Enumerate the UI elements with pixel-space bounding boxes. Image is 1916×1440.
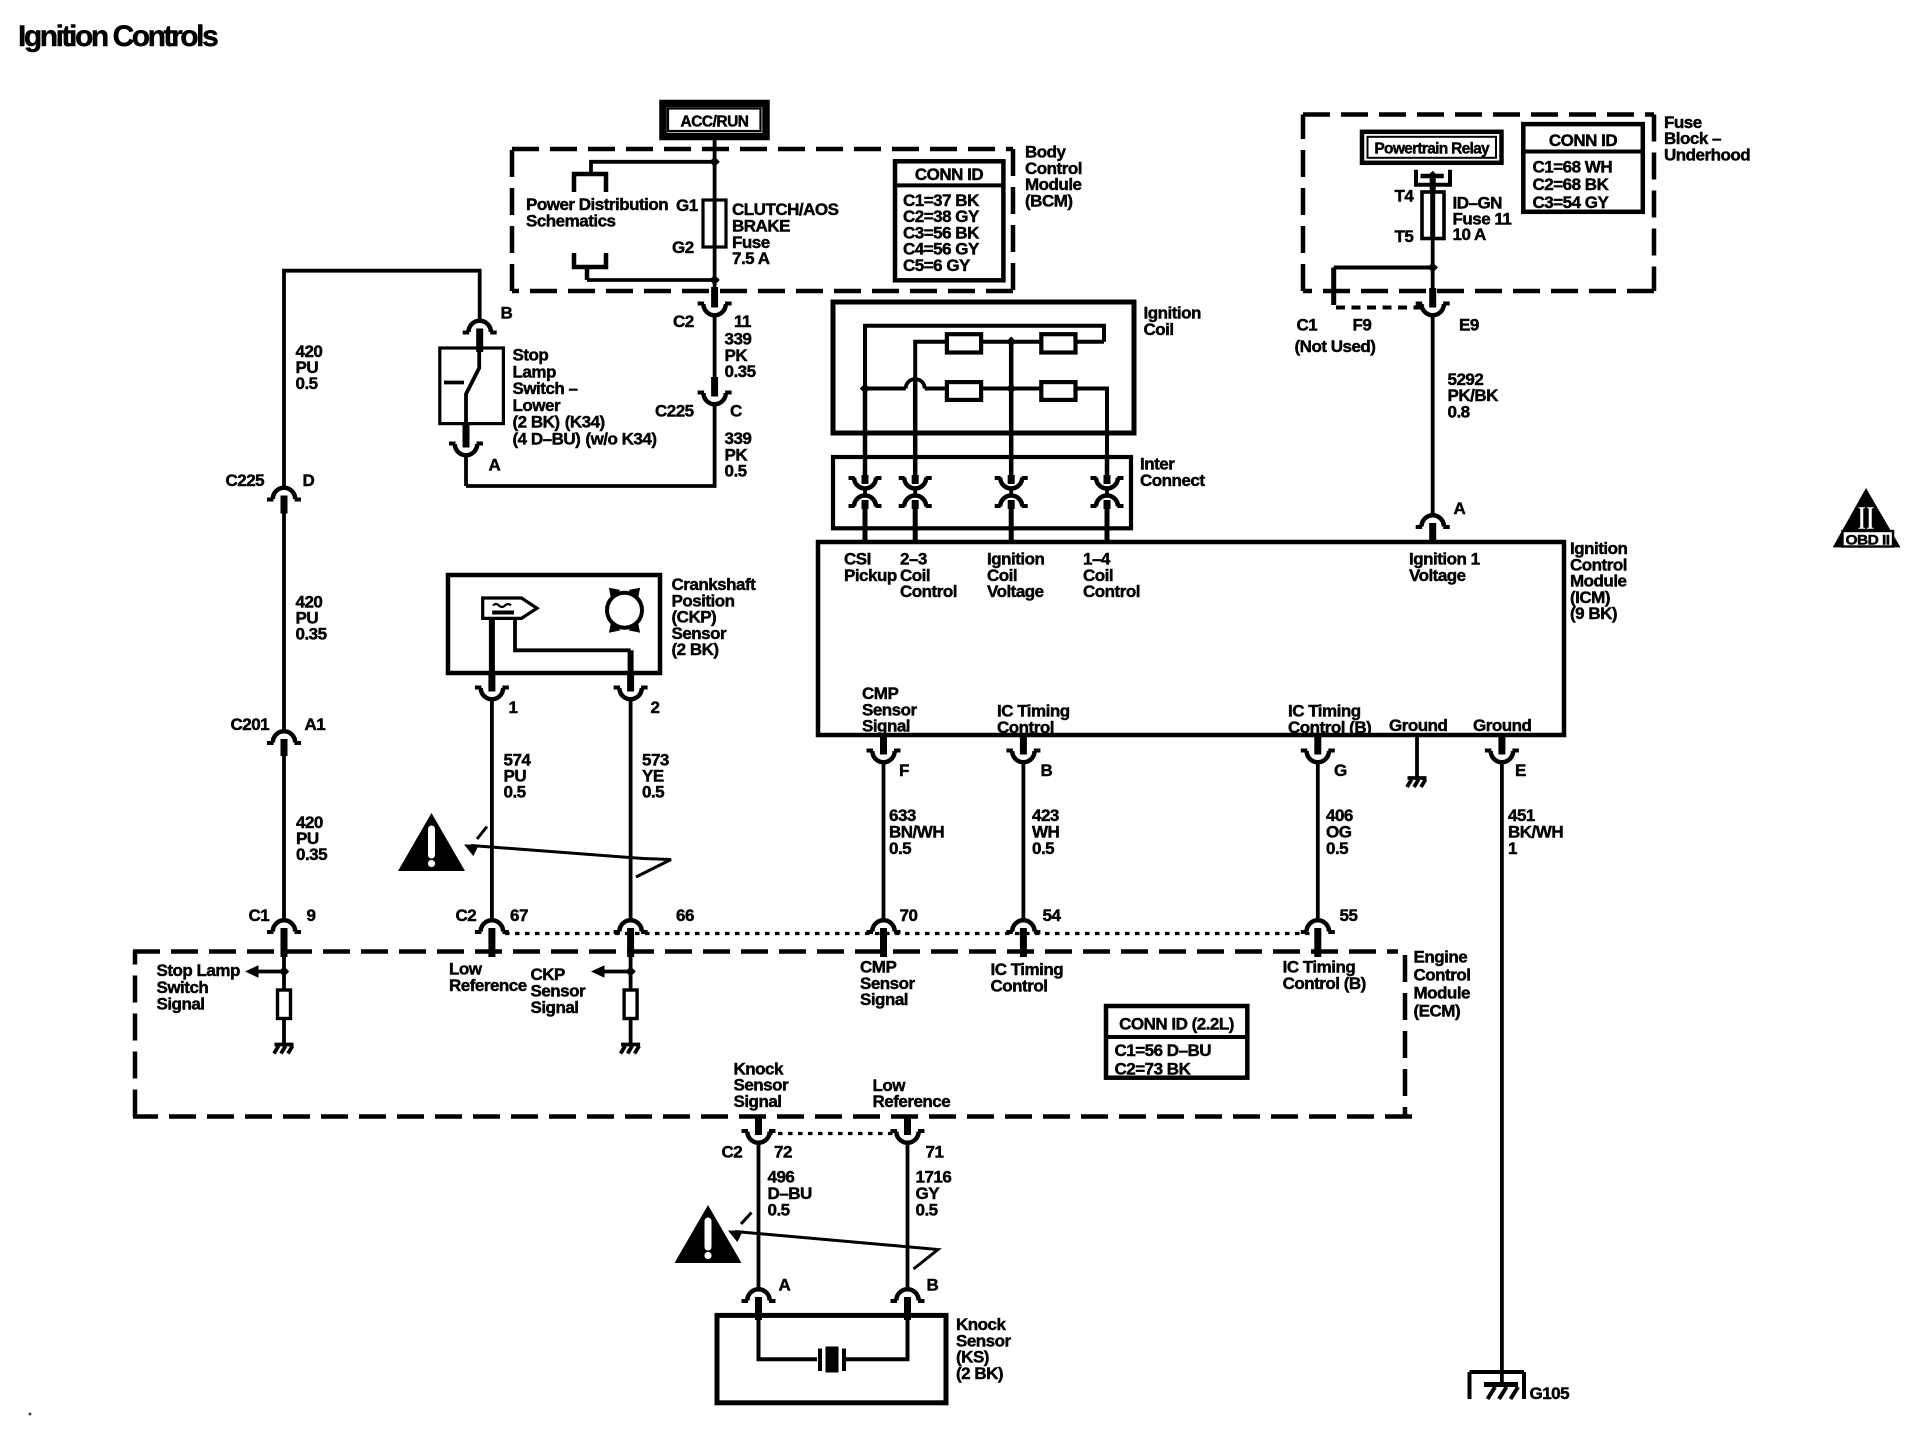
svg-text:C225: C225	[226, 471, 265, 490]
connector A (KS)	[742, 1289, 776, 1301]
connector C2 pin 54 (ECM)	[1006, 920, 1040, 932]
connector C2 pin 66 (ECM)	[614, 920, 648, 932]
connector C1 pin 9 stub	[281, 928, 288, 957]
connector C2 pin 70 (ECM)	[867, 920, 901, 932]
svg-text:C1: C1	[1297, 316, 1318, 335]
connector C201 pin A1	[267, 731, 301, 743]
svg-text:CONN ID (2.2L): CONN ID (2.2L)	[1119, 1015, 1234, 1034]
net F9 not used (dashed)	[1336, 306, 1421, 310]
connector G stub	[1314, 735, 1321, 755]
svg-text:IC TimingControl: IC TimingControl	[997, 702, 1070, 737]
wire v3 ignition coil voltage	[1009, 342, 1014, 476]
wire fuse to E9	[1431, 239, 1435, 289]
svg-text:IgnitionCoilVoltage: IgnitionCoilVoltage	[987, 550, 1044, 602]
svg-text:55: 55	[1340, 906, 1358, 925]
ground (ICM case)	[1407, 778, 1427, 787]
wire relay to fuse	[1430, 176, 1436, 192]
warning note triangle 2	[675, 1205, 742, 1263]
svg-text:CLUTCH/AOSBRAKEFuse7.5 A: CLUTCH/AOSBRAKEFuse7.5 A	[732, 200, 839, 268]
relay box Powertrain Relay	[1362, 132, 1502, 163]
connector C2 pin 11	[698, 304, 732, 316]
wire 406 OG 0.5	[1316, 762, 1320, 920]
junction box Inter Connect	[833, 457, 1131, 528]
connector C2 pin 67 (ECM)	[475, 920, 509, 932]
wire stop lamp branch	[282, 957, 286, 990]
power distribution bracket bottom	[574, 253, 606, 267]
junction F9 tap	[1428, 262, 1438, 272]
svg-text:Ignition 1Voltage: Ignition 1Voltage	[1409, 550, 1480, 585]
sensor box CKP	[448, 575, 660, 673]
wire pair2 to ICM	[913, 505, 918, 542]
arrow CKP signal	[600, 970, 631, 974]
wire junction to bracket	[591, 162, 715, 174]
svg-text:BodyControlModule(BCM): BodyControlModule(BCM)	[1025, 143, 1082, 211]
svg-text:423WH0.5: 423WH0.5	[1032, 806, 1060, 858]
wire hop over v2	[906, 379, 925, 389]
wire 420 PU 0.35 (mid)	[282, 514, 286, 732]
svg-text:66: 66	[676, 906, 694, 925]
OBD II marker	[1833, 488, 1901, 548]
relay terminal T-bar	[1421, 174, 1444, 179]
coil winding R4	[1041, 382, 1075, 400]
connector B stub (ICM)	[1020, 735, 1027, 755]
connector E9 stub	[1429, 288, 1436, 308]
KS internal wires	[759, 1320, 818, 1359]
coil inner loop top	[865, 326, 1104, 389]
svg-text:CONN ID: CONN ID	[1549, 131, 1618, 150]
svg-text:D: D	[303, 471, 315, 490]
ground G105	[1470, 1372, 1525, 1399]
wire resistor to ground	[282, 1019, 286, 1044]
svg-text:C2: C2	[722, 1143, 743, 1162]
connector C1 pin 9 (ECM)	[267, 920, 301, 932]
svg-text:CKPSensorSignal: CKPSensorSignal	[531, 965, 587, 1017]
arrow stop lamp signal	[254, 970, 284, 974]
ground (CKP)	[621, 1045, 641, 1054]
connector C225 pin D stub	[281, 496, 288, 514]
svg-text:C2: C2	[673, 312, 694, 331]
resistor (CKP pull)	[624, 990, 637, 1019]
connector pin 2	[614, 688, 648, 700]
svg-text:420PU0.5: 420PU0.5	[296, 342, 323, 393]
connector C2 link line knock (dotted)	[768, 1132, 898, 1135]
svg-text:Power DistributionSchematics: Power DistributionSchematics	[526, 195, 668, 230]
svg-text:FuseBlock –Underhood: FuseBlock –Underhood	[1664, 113, 1750, 165]
svg-text:LowReference: LowReference	[873, 1076, 951, 1111]
svg-text:ACC/RUN: ACC/RUN	[681, 114, 749, 131]
wire v4 1-4 coil control	[1105, 457, 1110, 476]
svg-text:T4: T4	[1395, 187, 1415, 206]
connector E9	[1416, 304, 1450, 316]
svg-text:OBD II: OBD II	[1846, 533, 1890, 548]
svg-text:420PU0.35: 420PU0.35	[296, 813, 327, 864]
wire F9 tap	[1334, 266, 1433, 270]
svg-text:(Not Used): (Not Used)	[1295, 337, 1376, 356]
svg-text:633BN/WH0.5: 633BN/WH0.5	[889, 806, 944, 858]
switch Stop Lamp Switch Lower	[440, 348, 504, 424]
svg-text:71: 71	[926, 1143, 944, 1162]
svg-text:IC TimingControl (B): IC TimingControl (B)	[1288, 702, 1371, 737]
connector pin 2 stub	[627, 673, 634, 692]
connector C2 pin 71 stub	[904, 1116, 911, 1135]
ICM case ground wire	[1415, 735, 1419, 777]
wire 574 PU 0.5	[490, 699, 494, 920]
junction node lower	[709, 275, 719, 285]
connector B (KS)	[891, 1289, 925, 1301]
svg-text:C1: C1	[249, 906, 270, 925]
svg-text:339PK0.5: 339PK0.5	[725, 429, 752, 481]
connector pin 1	[475, 688, 509, 700]
connector B (ICM)	[1006, 751, 1040, 763]
ground (stop lamp)	[274, 1045, 294, 1054]
svg-text:CONN ID: CONN ID	[915, 165, 984, 184]
CKP reluctor wheel symbol	[607, 588, 642, 633]
wire 496 D-BU 0.5	[757, 1143, 761, 1289]
svg-text:E: E	[1515, 761, 1526, 780]
note leader arrow	[461, 827, 671, 878]
wire 339 PK 0.5	[466, 404, 715, 486]
coil winding R1	[947, 334, 981, 352]
svg-text:574PU0.5: 574PU0.5	[504, 751, 532, 802]
connector A (switch bottom)	[449, 444, 483, 456]
junction node	[709, 157, 719, 167]
svg-text:KnockSensorSignal: KnockSensorSignal	[734, 1059, 790, 1110]
relay terminal bracket	[1416, 170, 1450, 185]
svg-text:2: 2	[651, 698, 660, 717]
svg-text:C2: C2	[456, 906, 477, 925]
wire pair1 to ICM	[863, 505, 868, 542]
svg-text:CSIPickup: CSIPickup	[844, 550, 897, 585]
connector id table ECM	[1106, 1006, 1247, 1079]
svg-text:CMPSensorSignal: CMPSensorSignal	[862, 684, 918, 736]
svg-text:573YE0.5: 573YE0.5	[642, 751, 669, 802]
wire junction to fuse	[713, 162, 717, 200]
connector C201 pin A1 stub	[281, 739, 288, 756]
wire v1 CSI pickup	[863, 389, 868, 477]
svg-text:IC TimingControl: IC TimingControl	[991, 960, 1064, 995]
svg-text:Ground: Ground	[1389, 716, 1447, 735]
connector C2 pin 55 (ECM)	[1301, 920, 1335, 932]
svg-text:G1: G1	[676, 196, 698, 215]
svg-text:A: A	[489, 456, 501, 475]
stray mark	[29, 1413, 32, 1416]
wire 573 YE 0.5	[629, 699, 633, 920]
connector A (ICM)	[1416, 515, 1450, 527]
connector C2 pin 11 stub	[711, 287, 718, 308]
svg-text:G105: G105	[1530, 1384, 1570, 1403]
connector B (switch top)	[463, 321, 497, 333]
wire ACC/RUN to junction	[713, 140, 717, 162]
junction secondary mid	[1006, 383, 1016, 393]
wire fuse to lower junction	[713, 247, 717, 288]
connector C2 pin 72 stub	[755, 1116, 762, 1135]
interconnect pair 1	[849, 475, 882, 509]
fuse block box (dashed)	[1303, 115, 1654, 292]
connector id table BCM	[895, 161, 1003, 280]
svg-text:A1: A1	[305, 715, 326, 734]
svg-text:1–4CoilControl: 1–4CoilControl	[1083, 550, 1140, 602]
wire 420 PU top run	[284, 271, 480, 487]
svg-text:B: B	[501, 304, 513, 323]
connector F stub	[880, 735, 887, 755]
svg-text:IgnitionCoil: IgnitionCoil	[1144, 304, 1201, 339]
wire 451 BK/WH 1	[1500, 762, 1504, 1382]
wire CKP branch	[629, 957, 633, 990]
connector A stub (ICM)	[1429, 523, 1436, 542]
power source box ACC/RUN	[663, 104, 766, 137]
svg-text:Ground: Ground	[1473, 716, 1531, 735]
resistor (stop lamp pull)	[278, 990, 291, 1019]
svg-text:496D–BU0.5: 496D–BU0.5	[768, 1168, 813, 1220]
svg-text:Powertrain Relay: Powertrain Relay	[1374, 141, 1490, 158]
svg-text:A: A	[779, 1276, 791, 1295]
svg-text:C1=37 BKC2=38 GYC3=56 BKC4=56: C1=37 BKC2=38 GYC3=56 BKC4=56 GYC5=6 GY	[903, 191, 980, 275]
wire CKP internal pin1	[489, 618, 495, 673]
svg-text:451BK/WH1: 451BK/WH1	[1508, 806, 1563, 858]
junction stop lamp	[279, 966, 289, 976]
svg-text:72: 72	[774, 1143, 792, 1162]
wire 5292 PK/BK 0.8	[1431, 315, 1435, 514]
svg-text:C1=56 D–BUC2=73 BK: C1=56 D–BUC2=73 BK	[1115, 1041, 1212, 1079]
svg-text:C225: C225	[655, 402, 694, 421]
svg-text:1: 1	[509, 698, 518, 717]
svg-text:StopLampSwitch –Lower(2 BK) (: StopLampSwitch –Lower(2 BK) (K34)(4 D–BU…	[513, 346, 657, 449]
interconnect pair 3	[995, 475, 1028, 509]
svg-text:339PK0.35: 339PK0.35	[725, 330, 756, 382]
connector F	[867, 751, 901, 763]
wire resistor to ground 2	[629, 1019, 633, 1044]
svg-text:KnockSensor(KS)(2 BK): KnockSensor(KS)(2 BK)	[956, 1315, 1012, 1383]
svg-text:InterConnect: InterConnect	[1140, 455, 1205, 491]
svg-text:G: G	[1334, 761, 1347, 780]
svg-text:C1=68 WHC2=68 BKC3=54 GY: C1=68 WHC2=68 BKC3=54 GY	[1533, 158, 1613, 212]
wire 420 PU 0.35 (lower)	[282, 756, 286, 920]
connector C225 pin C	[698, 393, 732, 405]
warning note triangle	[398, 813, 465, 871]
svg-text:Stop LampSwitchSignal: Stop LampSwitchSignal	[157, 961, 240, 1014]
svg-text:2–3CoilControl: 2–3CoilControl	[900, 550, 957, 602]
connector B stub	[476, 329, 483, 353]
connector C225 pin D	[267, 488, 301, 500]
connector pin 1 stub	[488, 673, 495, 692]
wire 423 WH 0.5	[1022, 762, 1026, 920]
connector A stub (KS)	[755, 1297, 762, 1320]
svg-text:E9: E9	[1459, 316, 1479, 335]
svg-text:ID–GNFuse 1110 A: ID–GNFuse 1110 A	[1453, 194, 1512, 245]
svg-text:B: B	[1041, 761, 1053, 780]
fuse ID-GN Fuse 11 10A	[1422, 192, 1444, 239]
wire 339 PK 0.35	[713, 315, 717, 377]
svg-text:54: 54	[1043, 906, 1062, 925]
connector C2 pin 72	[742, 1131, 776, 1143]
svg-text:1716GY0.5: 1716GY0.5	[916, 1168, 952, 1220]
fuse CLUTCH/AOS BRAKE 7.5A	[703, 200, 726, 247]
connector C2 link line (dotted)	[505, 932, 1318, 935]
junction top row	[1006, 337, 1016, 347]
wire v2 2-3 coil control	[913, 380, 918, 476]
svg-text:11: 11	[734, 312, 751, 331]
svg-text:LowReference: LowReference	[449, 960, 527, 995]
connector C225 pin C stub	[711, 377, 718, 397]
wire 633 BN/WH 0.5	[882, 762, 886, 920]
connector id table fuse block	[1523, 124, 1643, 212]
svg-text:T5: T5	[1395, 227, 1414, 246]
connector G	[1301, 751, 1335, 763]
junction CKP	[625, 966, 635, 976]
sensor box Knock Sensor	[717, 1315, 946, 1402]
svg-text:70: 70	[900, 906, 918, 925]
svg-text:67: 67	[510, 906, 528, 925]
svg-text:5292PK/BK0.8: 5292PK/BK0.8	[1448, 370, 1500, 422]
svg-text:CMPSensorSignal: CMPSensorSignal	[860, 958, 916, 1010]
power distribution bracket top	[574, 174, 606, 192]
wire 1716 GY 0.5	[906, 1143, 910, 1289]
svg-text:9: 9	[307, 906, 316, 925]
svg-text:IgnitionControlModule(ICM)(9 B: IgnitionControlModule(ICM)(9 BK)	[1570, 539, 1627, 623]
CKP pickup symbol	[483, 598, 537, 618]
wire A to corner	[464, 455, 468, 486]
connector C2 pin 71	[891, 1131, 925, 1143]
svg-text:B: B	[927, 1276, 939, 1295]
svg-text:G2: G2	[672, 238, 694, 257]
svg-text:F9: F9	[1353, 316, 1372, 335]
note leader arrow 2	[725, 1213, 938, 1270]
coil winding R2	[1041, 334, 1075, 352]
svg-text:C: C	[730, 402, 742, 421]
connector E	[1485, 751, 1519, 763]
module box BCM (dashed)	[512, 149, 1013, 291]
wire pair4 to ICM	[1105, 505, 1110, 542]
coil secondary row wire with hop	[865, 387, 906, 391]
svg-text:A: A	[1454, 499, 1466, 518]
svg-text:Ignition Controls: Ignition Controls	[18, 20, 218, 53]
svg-text:CrankshaftPosition(CKP)Sensor(: CrankshaftPosition(CKP)Sensor(2 BK)	[672, 575, 757, 659]
svg-text:406OG0.5: 406OG0.5	[1326, 806, 1353, 858]
svg-text:F: F	[899, 761, 909, 780]
svg-text:EngineControlModule(ECM): EngineControlModule(ECM)	[1414, 948, 1471, 1021]
connector A stub	[463, 424, 470, 448]
KS piezo element	[820, 1347, 844, 1373]
component box Ignition Coil	[833, 302, 1134, 433]
connector E stub	[1498, 735, 1505, 755]
module box ECM (dashed)	[133, 951, 1412, 1117]
wire bracket bottom to junction	[585, 266, 590, 280]
connector B stub (KS)	[904, 1297, 911, 1320]
module box ICM	[818, 542, 1564, 735]
svg-text:IC TimingControl (B): IC TimingControl (B)	[1283, 958, 1366, 993]
interconnect pair 4	[1091, 475, 1124, 509]
wire CKP internal pin2	[515, 618, 631, 650]
junction secondary left	[860, 383, 870, 393]
coil winding R3	[947, 382, 981, 400]
svg-text:C201: C201	[231, 715, 270, 734]
coil primary row wire	[915, 342, 1104, 380]
interconnect pair 2	[899, 475, 932, 509]
svg-text:420PU0.35: 420PU0.35	[296, 593, 327, 644]
wire pair3 to ICM	[1009, 505, 1014, 542]
